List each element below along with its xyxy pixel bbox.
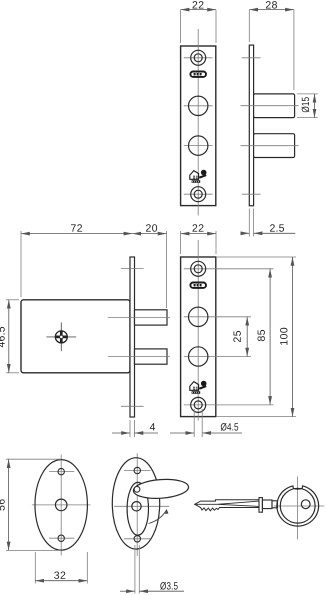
vertical centerline xyxy=(197,29,199,216)
dimension Ø4.5 (screw hole diameter) xyxy=(170,409,242,437)
key bow inner xyxy=(280,488,315,523)
blade spine line xyxy=(195,503,218,505)
blade milling taper xyxy=(217,501,259,506)
vertical centerline xyxy=(60,455,62,556)
dimension 72 (body length) xyxy=(21,231,132,297)
bolt 2 centerline xyxy=(241,145,299,147)
bottom screw hole xyxy=(191,187,206,202)
paddle pivot xyxy=(134,486,140,492)
vertical centerline xyxy=(136,453,138,556)
faceplate section (side view) xyxy=(249,45,253,206)
horizontal centerline xyxy=(114,505,169,507)
escutcheon oval xyxy=(112,458,159,549)
dimension Ø15 (bolt diameter) xyxy=(297,94,318,118)
key ring hole xyxy=(301,500,310,509)
bottom screw hole centerline xyxy=(184,193,213,195)
bolt 1 centerline xyxy=(241,105,299,107)
escutcheon oval xyxy=(35,460,87,551)
key shaft xyxy=(262,500,272,509)
bolt 2 centerline xyxy=(108,356,170,358)
rotation arrow xyxy=(149,510,167,524)
bolt hole 1 centerline xyxy=(184,316,251,318)
bolt hole 1 xyxy=(189,307,208,326)
bolt 2 stub xyxy=(135,349,168,364)
top screw hole centerline xyxy=(184,268,274,270)
top screw hole xyxy=(134,467,140,473)
fixing screw symbol on body xyxy=(46,322,76,351)
bolt hole 1 centerline xyxy=(184,105,213,107)
key neck xyxy=(272,501,278,508)
dimension 32 (escutcheon width) xyxy=(35,552,87,584)
bottom screw hole centerline xyxy=(184,404,274,406)
thumbturn paddle xyxy=(133,478,189,500)
key bow outer xyxy=(277,486,319,526)
body centerlines / ticks xyxy=(108,268,170,406)
key collar ring xyxy=(259,498,262,513)
top screw hole tick xyxy=(49,471,74,473)
bottom screw hole xyxy=(191,397,206,412)
key blade outline xyxy=(195,500,259,511)
dimension 56 (escutcheon height) xyxy=(6,459,61,550)
bottom screw hole xyxy=(134,536,140,542)
dimension 22 (middle faceplate width) xyxy=(181,231,216,254)
top screw tick xyxy=(242,57,261,59)
bottom screw hole tick xyxy=(49,537,74,539)
centre hole xyxy=(55,499,67,511)
brand logo (house + dot) xyxy=(190,170,207,183)
centre hole xyxy=(132,502,141,511)
dimension 28 (side view depth) xyxy=(249,10,294,90)
top screw hole xyxy=(58,468,64,474)
dimension Ø3.5 (screw hole diameter) xyxy=(120,545,184,594)
JPS oval slot xyxy=(190,283,206,288)
top screw tick xyxy=(121,267,144,269)
brand logo (house + dot) xyxy=(190,381,207,394)
dimension 100 (faceplate height) xyxy=(216,257,296,417)
dimension 20 (bolt throw) xyxy=(132,231,166,308)
vertical centerline xyxy=(197,240,199,421)
bolt 1 (side view) xyxy=(254,94,295,118)
bottom screw tick xyxy=(124,538,151,540)
dimension 46.5 (body height) xyxy=(6,300,19,373)
bow horizontal centerline xyxy=(274,505,325,507)
top screw tick xyxy=(124,470,151,472)
top screw hole centerline xyxy=(184,57,213,59)
dimension 85 (screw spacing) xyxy=(269,269,271,405)
bolt hole 2 centerline xyxy=(184,145,213,147)
bow vertical centerline xyxy=(296,476,298,539)
JPS oval slot xyxy=(190,72,206,77)
dimension 22 (top faceplate width) xyxy=(181,10,216,43)
bolt hole 2 centerline xyxy=(184,356,251,358)
top screw hole xyxy=(191,261,206,276)
faceplate outline (front view) xyxy=(181,46,216,206)
lock body xyxy=(21,300,130,373)
side view centerlines and screw ticks xyxy=(241,58,299,194)
dimension 2.5 (faceplate thickness) xyxy=(241,209,295,237)
dimension 25 (bolt hole spacing) xyxy=(246,317,248,357)
faceplate edge (section) xyxy=(130,257,135,417)
thumbturn base oval xyxy=(127,482,148,535)
dimension 4 (faceplate edge thickness) xyxy=(112,420,158,437)
faceplate outline xyxy=(181,257,216,417)
bolt hole 2 xyxy=(189,136,208,155)
bolt hole 2 xyxy=(189,347,208,366)
top screw hole xyxy=(191,50,206,65)
bolt 1 centerline xyxy=(108,316,170,318)
bottom screw tick xyxy=(242,193,261,195)
horizontal centerline xyxy=(32,504,91,506)
bottom screw hole xyxy=(58,535,64,541)
bottom screw tick xyxy=(121,405,144,407)
bolt 2 (side view) xyxy=(254,134,295,158)
bolt 1 stub xyxy=(135,310,168,325)
bolt hole 1 xyxy=(189,96,208,115)
